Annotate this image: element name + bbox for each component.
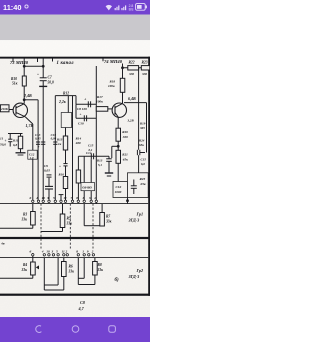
svg-text:11:40: 11:40	[3, 3, 22, 12]
svg-text:B/s: B/s	[129, 8, 134, 12]
